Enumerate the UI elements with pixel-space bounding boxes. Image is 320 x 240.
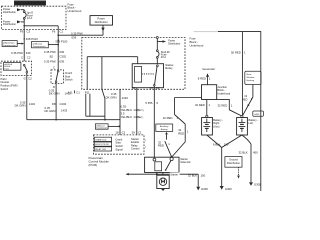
svg-text:32 RED: 32 RED — [218, 103, 228, 107]
svg-text:C3: C3 — [27, 30, 31, 34]
svg-text:Left: Left — [249, 121, 254, 125]
svg-text:RED: RED — [178, 131, 184, 135]
svg-text:G306: G306 — [201, 187, 208, 191]
svg-text:32 RED: 32 RED — [163, 116, 173, 120]
svg-text:RED: RED — [242, 97, 248, 101]
svg-text:0.35 PNK: 0.35 PNK — [44, 50, 56, 54]
svg-text:Relay: Relay — [165, 66, 173, 70]
svg-text:639: 639 — [59, 50, 64, 54]
svg-text:508 P100: 508 P100 — [55, 39, 67, 43]
svg-text:0405: 0405 — [254, 114, 260, 116]
svg-text:C302: C302 — [59, 54, 66, 58]
svg-text:RELAY 1433: RELAY 1433 — [95, 148, 106, 151]
svg-text:Park/: Park/ — [1, 77, 7, 81]
svg-text:Underhood: Underhood — [68, 9, 82, 13]
svg-text:RED: RED — [158, 143, 164, 147]
svg-text:Generator: Generator — [202, 67, 215, 71]
svg-text:639: 639 — [59, 60, 64, 64]
svg-text:C2: C2 — [27, 55, 31, 59]
svg-text:0.35 PNK: 0.35 PNK — [11, 51, 23, 55]
svg-text:Hot In START and RUN: Hot In START and RUN — [15, 2, 46, 6]
svg-text:Trans: Trans — [4, 67, 9, 70]
svg-text:P11: P11 — [85, 90, 90, 94]
svg-text:5 PPL: 5 PPL — [145, 101, 153, 105]
svg-text:32 BLK: 32 BLK — [188, 174, 197, 178]
svg-text:C2: C2 — [156, 86, 160, 90]
svg-text:(PCM): (PCM) — [89, 163, 98, 167]
svg-text:Rear: Rear — [247, 73, 252, 76]
svg-text:C1: C1 — [138, 131, 142, 135]
svg-text:10 A: 10 A — [27, 16, 32, 20]
svg-text:639: 639 — [72, 36, 77, 40]
svg-text:18: 18 — [115, 131, 119, 135]
svg-text:Heating: Heating — [247, 79, 255, 82]
svg-text:Window: Window — [247, 77, 255, 79]
svg-text:Distribution: Distribution — [227, 161, 241, 165]
svg-text:C: C — [21, 55, 23, 59]
svg-text:Transmission: Transmission — [96, 127, 107, 130]
svg-text:CRANK 1432: CRANK 1432 — [95, 138, 106, 141]
svg-text:1433: 1433 — [122, 96, 129, 100]
svg-text:DK GRN: DK GRN — [106, 95, 117, 99]
svg-text:Control: Control — [131, 146, 140, 150]
svg-text:Transmission: Transmission — [33, 45, 47, 48]
svg-text:(M/T): (M/T) — [138, 110, 143, 112]
svg-text:450: 450 — [253, 151, 258, 155]
svg-text:Underhood: Underhood — [217, 91, 230, 95]
svg-text:Distribution: Distribution — [168, 42, 181, 45]
svg-text:1433: 1433 — [61, 109, 68, 113]
svg-text:C1: C1 — [60, 29, 64, 33]
svg-text:A11: A11 — [68, 90, 73, 94]
svg-text:Switch: Switch — [65, 78, 73, 82]
svg-text:408 P100: 408 P100 — [26, 37, 38, 41]
svg-text:86: 86 — [132, 86, 136, 90]
svg-text:C2: C2 — [28, 77, 32, 81]
svg-text:F9: F9 — [20, 30, 24, 34]
svg-text:(A/T): (A/T) — [138, 116, 143, 119]
svg-text:YEL/BLK: YEL/BLK — [121, 115, 132, 119]
svg-text:50 RED: 50 RED — [231, 51, 241, 55]
svg-text:39: 39 — [132, 131, 136, 135]
svg-text:D8: D8 — [52, 102, 56, 106]
svg-text:Solenoid: Solenoid — [180, 160, 191, 164]
svg-text:DK GRN: DK GRN — [49, 92, 60, 96]
svg-text:1432: 1432 — [29, 102, 36, 106]
svg-text:87: 87 — [150, 86, 154, 90]
svg-text:IGN VOLTS 639: IGN VOLTS 639 — [95, 144, 109, 146]
svg-text:40 A: 40 A — [161, 55, 166, 59]
svg-text:Position (PNP): Position (PNP) — [1, 84, 18, 88]
svg-text:G: G — [24, 77, 26, 81]
svg-text:8 BLK: 8 BLK — [213, 143, 221, 147]
svg-text:Distribution: Distribution — [95, 20, 109, 24]
svg-text:Battery: Battery — [161, 128, 169, 131]
svg-text:(Aux): (Aux) — [213, 124, 219, 128]
svg-text:B2: B2 — [50, 54, 54, 58]
svg-text:150: 150 — [224, 143, 229, 147]
svg-text:Auxiliary: Auxiliary — [160, 125, 169, 128]
svg-text:C2: C2 — [122, 131, 126, 135]
svg-text:DK GRN: DK GRN — [45, 109, 56, 113]
svg-text:Transmission: Transmission — [3, 44, 17, 47]
svg-text:Signal: Signal — [115, 147, 123, 151]
svg-text:DK GRN: DK GRN — [15, 104, 26, 108]
svg-text:w/Automatic: w/Automatic — [3, 41, 16, 44]
svg-text:8 RED: 8 RED — [198, 77, 206, 81]
svg-text:C: C — [53, 66, 55, 70]
svg-text:150: 150 — [201, 174, 206, 178]
svg-text:639: 639 — [26, 51, 31, 55]
svg-text:G305: G305 — [254, 183, 261, 187]
svg-text:Neutral: Neutral — [1, 80, 10, 84]
svg-text:Distribution: Distribution — [3, 10, 17, 14]
svg-text:Distribution: Distribution — [3, 22, 17, 26]
svg-text:Switch: Switch — [1, 87, 9, 91]
svg-text:0.35 PNK: 0.35 PNK — [44, 60, 56, 64]
svg-text:C1: C1 — [76, 90, 80, 94]
svg-text:Starter: Starter — [170, 173, 178, 177]
svg-text:G300: G300 — [225, 187, 232, 191]
svg-text:C202: C202 — [60, 102, 67, 106]
svg-text:Underhood: Underhood — [190, 43, 204, 47]
svg-text:32 BLK: 32 BLK — [239, 151, 248, 155]
svg-text:32 RED: 32 RED — [195, 103, 205, 107]
svg-text:F6: F6 — [52, 29, 56, 33]
